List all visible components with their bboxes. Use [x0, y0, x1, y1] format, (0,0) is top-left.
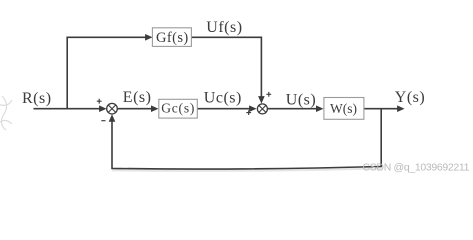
svg-text:CSDN @q_1039692211: CSDN @q_1039692211	[363, 162, 470, 174]
svg-text:W(s): W(s)	[330, 101, 357, 116]
svg-text:Uc(s): Uc(s)	[204, 89, 242, 106]
svg-text:U(s): U(s)	[286, 92, 316, 109]
svg-text:Gf(s): Gf(s)	[156, 30, 189, 46]
svg-text:R(s): R(s)	[22, 90, 52, 107]
svg-text:Y(s): Y(s)	[395, 89, 425, 106]
svg-text:Gc(s): Gc(s)	[161, 101, 195, 116]
svg-text:E(s): E(s)	[123, 89, 152, 106]
svg-text:Uf(s): Uf(s)	[206, 19, 242, 36]
